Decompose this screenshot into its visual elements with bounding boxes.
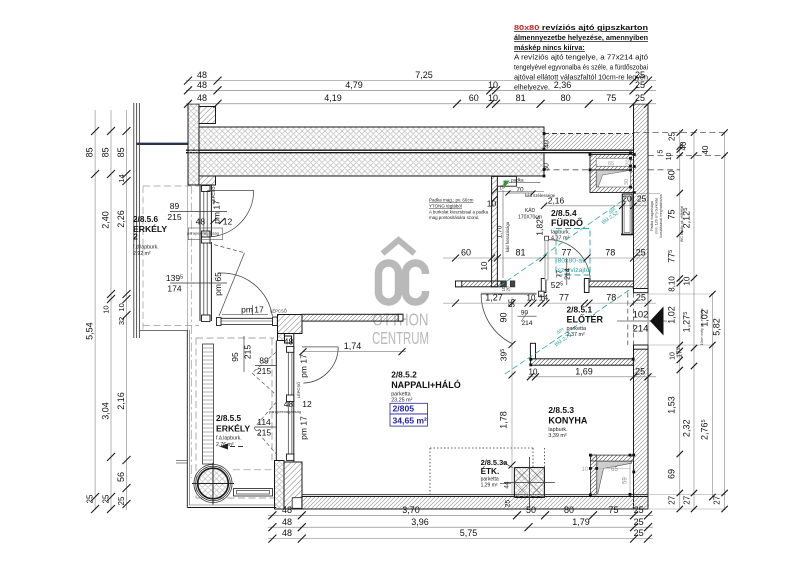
low parapet wall strip south of nappali [302,314,403,321]
svg-text:215: 215 [257,366,271,376]
svg-text:12: 12 [302,399,312,409]
erkely55 arrow dashed [222,446,243,448]
dashed lines extending right at top [634,132,727,134]
top dimension line 3 [186,103,656,105]
navy balcony slab edge line left [136,143,188,145]
svg-text:102: 102 [633,310,649,321]
erkely55 dashed inner rect [195,338,197,498]
svg-text:2,40: 2,40 [100,211,110,229]
entry arrow black triangle [650,307,664,336]
svg-text:48: 48 [284,399,294,409]
bottom exterior wall band hatched [302,497,648,510]
bottom dimension line 2 [268,526,653,528]
nappali blue number boxes [390,403,428,414]
svg-text:YTONG téglából: YTONG téglából [429,204,462,209]
lower window glazing [203,243,205,315]
svg-text:parapetmagasság: parapetmagasság [187,231,219,236]
upper window frame caps [202,186,211,192]
upper strip right of wall - hatched band with dashed edges [544,134,634,150]
svg-text:5,82: 5,82 [712,318,722,336]
svg-text:WC tartály gk. előtétfal: WC tartály gk. előtétfal [680,206,684,242]
svg-text:5,75: 5,75 [460,528,478,538]
svg-text:2,16: 2,16 [116,392,126,410]
svg-text:FÜRDŐ: FÜRDŐ [551,217,583,228]
svg-text:(min. 120 cm) burkolás: (min. 120 cm) burkolás [655,198,659,235]
pm65 window swing arc [218,273,273,316]
pier below left wall [199,176,216,185]
svg-text:ELŐTÉR: ELŐTÉR [567,314,604,325]
svg-text:2/805: 2/805 [393,404,415,414]
svg-text:25: 25 [86,494,95,503]
svg-text:48: 48 [282,517,292,527]
svg-text:85: 85 [100,147,110,157]
etk dotted boundary [430,447,533,449]
svg-text:90: 90 [499,312,509,322]
svg-text:27: 27 [683,495,692,504]
svg-text:85: 85 [85,147,95,157]
left chain ticks [91,127,99,135]
svg-text:10: 10 [487,199,497,209]
washbasin gray basin shape [596,170,630,187]
bathtub edge line [502,190,504,278]
partition wall jamb middle [541,279,546,293]
svg-text:A burkolat kiosztással a padka: A burkolat kiosztással a padka [429,210,489,215]
svg-text:70: 70 [516,187,524,194]
svg-text:pm 17: pm 17 [299,354,309,378]
svg-text:27: 27 [668,495,677,504]
nappali west window wall [275,341,277,461]
svg-text:25: 25 [505,500,512,508]
west window tilt dashes [252,352,276,373]
svg-text:80: 80 [561,93,571,103]
extension lines right side [648,293,714,295]
corner pier small step crosshatch [278,334,285,341]
upper window glazing [203,192,205,232]
svg-text:25: 25 [634,517,644,527]
lower window tilt dashes [208,243,245,253]
svg-text:KÁD: KÁD [525,207,536,214]
bottom-left corner column hatched part [284,462,302,509]
partition door posts [502,281,507,287]
svg-text:56: 56 [116,472,126,482]
svg-text:25: 25 [635,366,645,376]
south window band of erkely55 [218,317,277,319]
right dimension chain lines [679,130,681,510]
svg-text:1,27: 1,27 [485,293,503,303]
svg-text:5: 5 [658,149,665,153]
top-left pier hatched [199,107,216,124]
svg-text:80: 80 [564,505,574,515]
svg-text:2,37 m²: 2,37 m² [567,332,585,338]
west window 2 glazing [287,402,289,454]
svg-text:f.d.lapburk.: f.d.lapburk. [133,245,159,251]
svg-text:2/8.5.3: 2/8.5.3 [548,405,574,415]
erkely55 drain circle [194,464,232,502]
svg-text:215: 215 [167,212,181,222]
svg-text:Padka magassága: Padka magassága [650,201,654,231]
svg-text:f.á.lapburk.: f.á.lapburk. [216,436,242,442]
svg-text:48: 48 [282,505,292,515]
svg-text:Padka mag.: pv. 60cm: Padka mag.: pv. 60cm [429,198,474,203]
svg-text:2,32: 2,32 [682,420,692,438]
fuerdo door leaf and swing [545,236,549,240]
teal diagonal line eloter [505,288,633,375]
svg-text:27: 27 [713,495,722,504]
svg-text:77: 77 [557,270,564,278]
1,74 dim upper [303,351,406,353]
erkely2 dashed floor edge [142,186,144,330]
svg-text:10: 10 [101,305,110,313]
svg-text:1,78: 1,78 [499,411,509,429]
svg-text:10: 10 [480,261,489,270]
door jamb east of fuerdo door [584,279,589,293]
svg-text:14: 14 [117,174,126,182]
bottom dimension line 1 [268,514,653,516]
kitchen sink counter niche [590,455,596,495]
svg-text:215: 215 [257,428,271,438]
entry arrow pointer line [617,320,667,322]
svg-text:32: 32 [117,317,126,325]
top dimension line 2 [186,89,656,91]
svg-text:2/8.5.6: 2/8.5.6 [133,215,158,224]
svg-text:114: 114 [257,417,271,427]
svg-text:LÉPCSŐ: LÉPCSŐ [211,186,216,204]
svg-text:75: 75 [608,505,618,515]
svg-text:3,96: 3,96 [411,517,429,527]
svg-text:48: 48 [284,337,294,347]
eloter dim line 1,27-55-10-14-77-78-25 [443,302,656,304]
svg-text:ERKÉLY: ERKÉLY [216,424,250,434]
svg-text:17: 17 [254,305,264,315]
balcony door swing arc lower [302,346,338,348]
nappali-eloter door leaf and swing [481,293,537,295]
erkely2 floor bottom edge [140,330,188,332]
svg-text:10: 10 [683,276,692,285]
teal service door dashed rect [556,229,590,276]
top wall double slab line [188,149,633,153]
svg-text:20: 20 [622,194,632,204]
svg-text:ajtóval ellátott válaszfaltól: ajtóval ellátott válaszfaltól 10cm-re le… [514,73,648,82]
svg-text:65: 65 [611,467,618,473]
svg-text:48: 48 [282,528,292,538]
svg-text:60: 60 [667,170,677,180]
svg-text:3,04: 3,04 [100,402,110,420]
svg-text:81: 81 [515,248,525,258]
kitchen sink 65 dim line [590,467,630,469]
erkely2 window-door wall [199,185,201,322]
svg-text:214: 214 [522,320,533,327]
svg-text:25: 25 [635,93,645,103]
erkely55 left edge protrusion [176,460,188,462]
svg-text:KONYHA: KONYHA [548,416,588,426]
svg-text:2,26: 2,26 [116,210,126,228]
svg-text:40: 40 [701,145,710,154]
svg-text:60: 60 [469,93,479,103]
erkely55 outline [186,330,188,508]
svg-text:20: 20 [626,159,632,165]
teal diagonal line bathroom [499,201,622,287]
svg-text:14: 14 [539,293,549,303]
konyha wall west stub [530,343,535,359]
svg-text:77: 77 [559,293,569,303]
svg-text:7,25: 7,25 [415,70,433,80]
svg-text:89: 89 [170,201,180,211]
left exterior wall crosshatched [188,104,199,185]
svg-text:10cm mély gk. előtétfal: 10cm mély gk. előtétfal [700,308,704,345]
bottom dimension line 3 [268,538,653,540]
lower window frame caps [202,237,211,243]
svg-text:30: 30 [624,179,630,185]
svg-text:75: 75 [667,209,677,219]
svg-text:60: 60 [461,248,471,258]
bathroom horizontal dim line 60-10-81-77-78 [443,257,648,259]
svg-text:10: 10 [488,93,498,103]
west window frame caps [287,347,294,353]
svg-text:3,70: 3,70 [402,505,420,515]
right chain ticks [677,129,683,135]
svg-text:A revíziós ajtó tengelye, a 77: A revíziós ajtó tengelye, a 77x214 ajtó [514,53,648,62]
svg-text:LÉPCSŐ: LÉPCSŐ [296,382,301,398]
svg-text:3,39 m²: 3,39 m² [548,433,566,439]
parapet strip end cap [398,314,403,321]
konyha north wall hatched [530,359,633,365]
etk pillar hatched column [514,468,544,498]
svg-text:25: 25 [637,194,647,204]
svg-text:95: 95 [230,352,240,362]
svg-text:4,79: 4,79 [345,80,363,90]
balcony door swing arc upper [207,189,254,191]
svg-text:20: 20 [506,286,511,292]
kitchen sink inner box [597,461,630,494]
svg-text:214: 214 [633,324,649,335]
svg-text:10: 10 [666,153,673,161]
erkely2 railing triple line [133,103,135,338]
bottom-left corner column crosshatch part [275,461,285,510]
svg-text:25: 25 [634,505,644,515]
svg-text:25: 25 [101,494,110,503]
svg-text:59: 59 [623,477,629,484]
watermark Otthon Centrum logo [379,240,432,302]
svg-text:25: 25 [117,496,126,505]
svg-text:máskép nincs kiírva:: máskép nincs kiírva: [514,43,585,52]
fuerdo-eloter partition wall west segment [456,281,502,287]
svg-text:48: 48 [197,70,207,80]
svg-text:2,36: 2,36 [554,80,572,90]
green triangle padka marker [504,181,510,190]
svg-text:89: 89 [259,355,269,365]
kitchen sink gray shape [597,461,632,493]
svg-text:80x80-as: 80x80-as [558,258,587,265]
svg-text:10: 10 [488,80,498,90]
svg-text:kád hosszúsága: kád hosszúsága [505,221,510,252]
washbasin basin box [596,170,630,187]
washbasin niche top right [590,155,634,193]
svg-text:pm 17: pm 17 [299,416,309,440]
top exterior wall band crosshatched [199,127,544,176]
svg-text:80x80 revíziós ajtó gipszkarto: 80x80 revíziós ajtó gipszkarton [514,23,648,32]
svg-text:2,76 m²: 2,76 m² [216,442,234,448]
svg-text:48: 48 [196,217,206,227]
right exterior wall hatched upper segment [634,104,649,293]
svg-text:40: 40 [544,140,551,148]
svg-text:10: 10 [529,367,538,376]
svg-text:8,10: 8,10 [668,276,677,292]
svg-text:40: 40 [679,141,688,150]
right exterior wall hatched lower segment [634,345,649,509]
svg-text:78: 78 [606,293,616,303]
svg-text:álmennyezetbe helyezése, amenn: álmennyezetbe helyezése, amennyiben [514,33,648,42]
eloter entry door dashes in wall gap [627,293,629,346]
bathroom west wall hatched [492,176,498,286]
svg-text:padka: padka [511,178,524,183]
erkely2 door threshold rect [188,228,222,240]
svg-text:2,92 m²: 2,92 m² [133,251,151,257]
svg-text:pm 65: pm 65 [213,272,223,296]
svg-text:10: 10 [117,303,126,311]
fuerdo-eloter partition wall east segment [584,281,633,287]
svg-text:85: 85 [116,147,126,157]
west window 1 glazing [287,352,289,395]
svg-text:1,02: 1,02 [667,306,677,324]
svg-text:ÉTK.: ÉTK. [481,466,500,476]
erkely55 corner white notch [292,498,302,509]
left dimension chain lines [94,110,96,510]
nappali south-west corner pier hatched [278,315,303,334]
svg-text:5,54: 5,54 [85,322,95,340]
svg-text:25: 25 [668,132,677,141]
svg-text:75: 75 [606,93,616,103]
svg-text:1,29 m²: 1,29 m² [481,483,498,489]
svg-text:2/8.5.4: 2/8.5.4 [551,208,577,218]
svg-text:25: 25 [636,293,646,303]
svg-text:48: 48 [197,93,207,103]
svg-text:2/8.5.1: 2/8.5.1 [567,305,593,315]
svg-text:CENTRUM: CENTRUM [372,328,429,348]
svg-text:1,53: 1,53 [667,396,677,414]
svg-text:25: 25 [634,528,644,538]
svg-text:10: 10 [527,294,536,303]
svg-text:tengelyével egyvonalba és szél: tengelyével egyvonalba és széle, a fürdő… [514,63,648,72]
svg-text:2/8.5.5: 2/8.5.5 [216,414,241,423]
svg-text:77: 77 [561,248,571,258]
svg-text:174: 174 [167,284,181,294]
erkely55 vent grille [234,489,273,497]
svg-text:25: 25 [636,248,646,258]
svg-text:4,19: 4,19 [324,93,342,103]
svg-text:90: 90 [521,310,529,317]
svg-text:78: 78 [605,248,615,258]
svg-text:65: 65 [608,161,614,167]
svg-text:2: 2 [133,232,138,242]
svg-text:mag.pontosítására szorul.: mag.pontosítására szorul. [429,215,480,220]
svg-text:parapetmagasság: parapetmagasság [269,409,301,414]
svg-text:1¹: 1¹ [500,186,504,191]
svg-text:81: 81 [516,93,526,103]
konyha dim 10-1,69-25 [528,376,656,378]
svg-text:kiosztásával meghatározva: kiosztásával meghatározva [659,194,663,237]
top dimension line 1 [186,80,656,82]
washbasin top shelf box [596,158,630,166]
svg-text:4,37 m²: 4,37 m² [551,236,569,242]
svg-text:69: 69 [667,469,677,479]
svg-text:34,65 m²: 34,65 m² [393,416,428,426]
etk leader lines [503,462,513,468]
svg-text:25: 25 [635,70,645,80]
svg-text:50: 50 [526,505,536,515]
svg-text:1,69: 1,69 [575,366,593,376]
svg-text:pm: pm [241,305,253,315]
svg-text:1,70: 1,70 [497,225,504,238]
padka step at bathtub head [497,176,516,186]
svg-text:1,74: 1,74 [344,341,362,351]
svg-text:48: 48 [197,80,207,90]
washbasin extension line [634,193,660,195]
svg-text:LÉPCSŐ: LÉPCSŐ [270,309,288,314]
svg-text:kád szélessége: kád szélessége [525,193,556,198]
svg-text:ERKÉLY: ERKÉLY [133,224,167,234]
svg-text:25: 25 [635,80,645,90]
interior vertical chain x508 [511,297,513,496]
svg-text:10: 10 [582,467,589,473]
svg-text:2/8.5.2: 2/8.5.2 [391,370,417,380]
shaft box on right wall in bathroom [622,194,632,235]
svg-text:NAPPALI+HÁLÓ: NAPPALI+HÁLÓ [391,379,461,390]
svg-text:1,79: 1,79 [572,517,590,527]
partition wall west end cap [456,281,462,287]
svg-text:214: 214 [565,268,572,280]
erkely55 shutter strip [203,344,214,464]
bathroom 2,16 dim [544,205,648,207]
